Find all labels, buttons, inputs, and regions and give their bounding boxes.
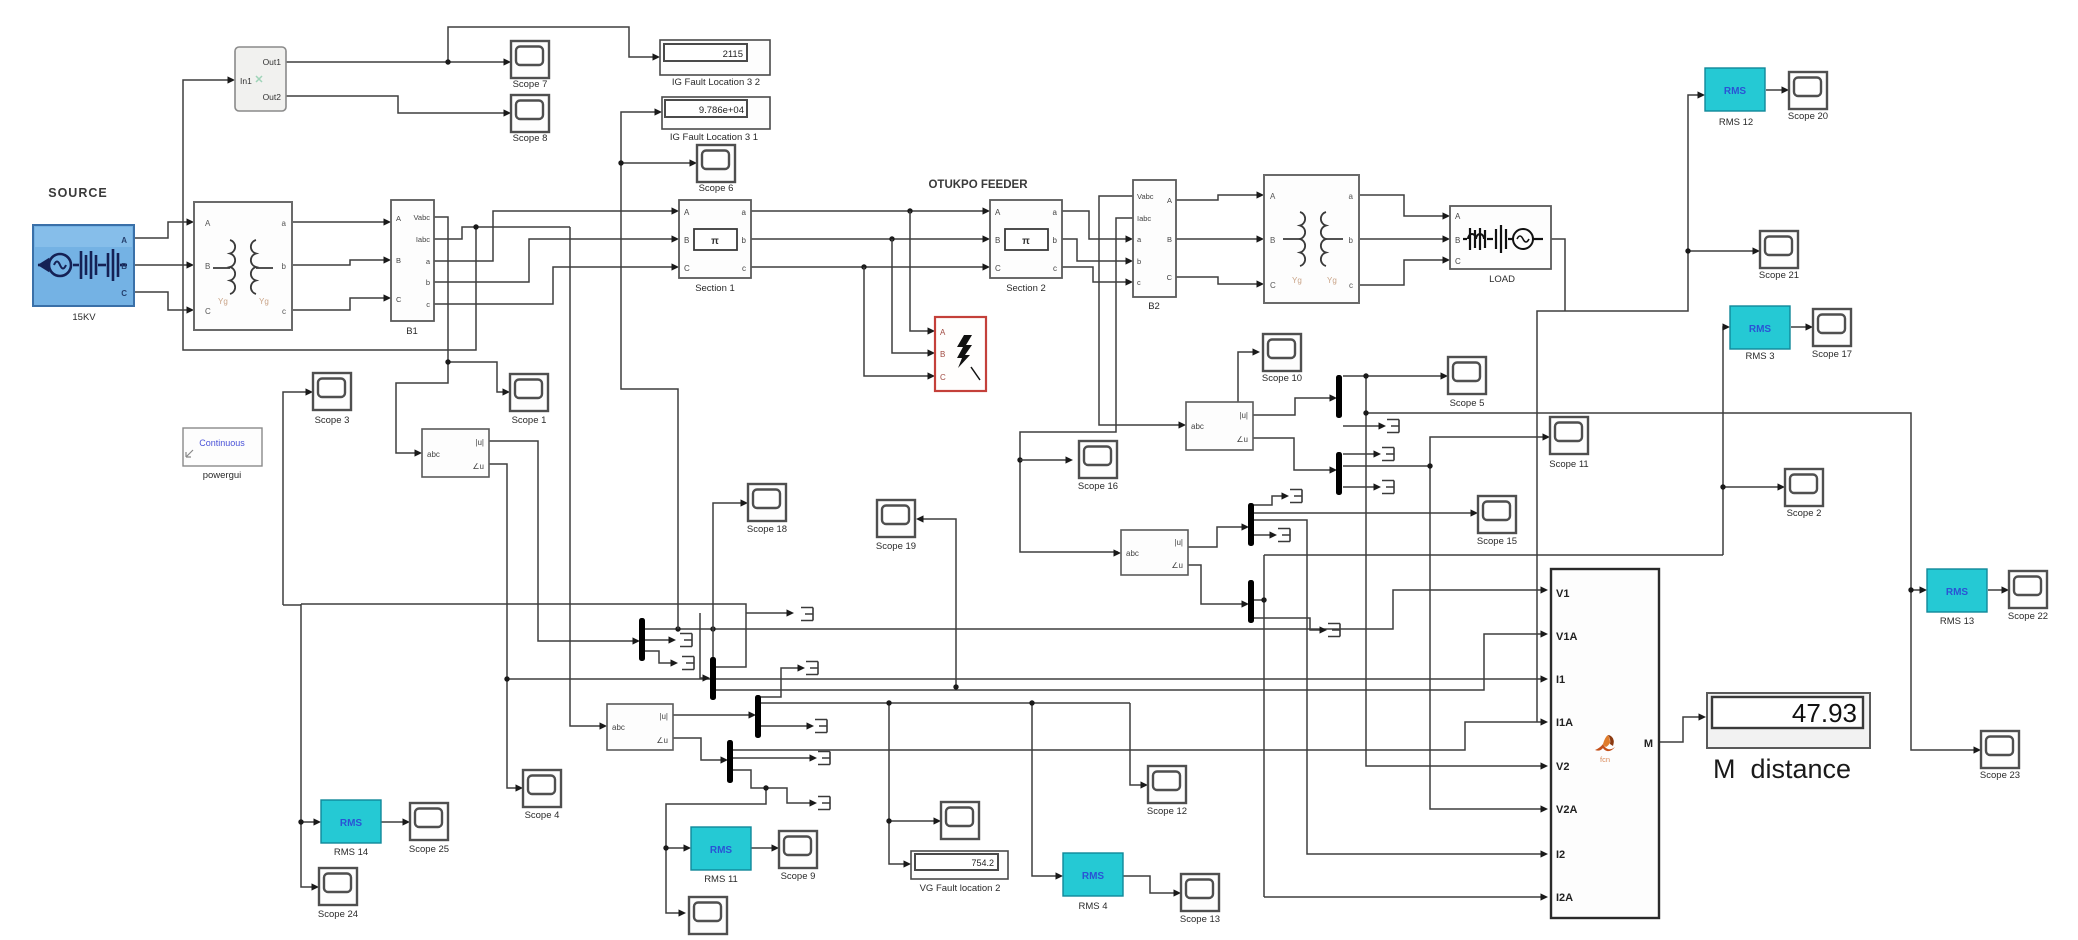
demux bar M3	[755, 695, 761, 738]
scope Scope 25	[409, 803, 449, 855]
wire LOAD output riser to RMS 12 and Scope 21	[1537, 95, 1757, 722]
wire tap to fault A	[910, 211, 932, 331]
abc to mag-angle converter U5	[1121, 530, 1188, 575]
svg-text:9.786e+04: 9.786e+04	[699, 105, 744, 116]
svg-text:I1A: I1A	[1556, 717, 1573, 729]
scope S20u unnamed	[941, 802, 979, 839]
scope Scope 6	[697, 145, 735, 194]
svg-text:b: b	[1053, 236, 1058, 245]
wire trunk bar M1 to fcn V1	[644, 590, 1545, 629]
scope Scope 12	[1147, 766, 1187, 817]
svg-text:B1: B1	[406, 326, 418, 337]
svg-text:b: b	[426, 278, 430, 287]
svg-text:powergui: powergui	[203, 470, 242, 481]
wire B1 a to Section 1 A	[434, 211, 676, 261]
svg-text:Yg: Yg	[259, 297, 269, 306]
wire abc3 mag to bar M3	[673, 714, 753, 716]
wire to Scope 10	[1238, 352, 1257, 402]
RMS block RMS 13	[1927, 569, 1987, 627]
svg-text:c: c	[1137, 278, 1141, 287]
scope Scope 8	[511, 95, 549, 144]
svg-text:B: B	[205, 262, 210, 271]
svg-text:M distance: M distance	[1713, 754, 1851, 784]
wire to Scope 18	[713, 503, 745, 657]
RMS block RMS 4	[1063, 853, 1123, 912]
svg-text:RMS 3: RMS 3	[1745, 351, 1774, 362]
svg-text:Scope 24: Scope 24	[318, 909, 358, 920]
wire bar M3 to terminator T4	[760, 668, 802, 697]
demux bar M1	[639, 618, 645, 661]
wire abc1 angle to Scope 4	[489, 464, 520, 788]
wire T1 c to B1 C	[292, 298, 388, 310]
svg-text:RMS 12: RMS 12	[1719, 117, 1753, 128]
svg-text:RMS 11: RMS 11	[704, 874, 738, 885]
svg-text:∠u: ∠u	[472, 462, 484, 471]
svg-text:V1A: V1A	[1556, 631, 1577, 643]
terminator T7	[818, 797, 830, 810]
svg-text:B: B	[396, 256, 401, 265]
svg-text:C: C	[1270, 281, 1276, 290]
svg-text:|u|: |u|	[659, 712, 668, 721]
terminator T5	[815, 720, 827, 733]
svg-text:Iabc: Iabc	[1137, 214, 1151, 223]
terminator T2	[680, 634, 692, 647]
wire source B to T1	[134, 264, 191, 266]
wire RMS 3 to Scope 17	[1791, 326, 1810, 328]
svg-text:Iabc: Iabc	[416, 235, 430, 244]
svg-text:M: M	[1644, 738, 1653, 750]
scope Scope 2	[1785, 469, 1823, 519]
svg-text:Scope 12: Scope 12	[1147, 806, 1187, 817]
svg-text:Scope 22: Scope 22	[2008, 611, 2048, 622]
wire RMS 11 to Scope 9	[750, 847, 776, 849]
wire bar M4 zigzag to terminator T7 and RMS 11	[666, 770, 814, 913]
scope Scope 11	[1549, 417, 1588, 470]
svg-text:π: π	[1022, 236, 1030, 247]
svg-text:A: A	[940, 328, 946, 337]
svg-text:abc: abc	[427, 450, 440, 459]
svg-text:Scope 25: Scope 25	[409, 844, 449, 855]
terminator T6	[818, 752, 830, 765]
abc to mag-angle converter U4	[1186, 402, 1253, 450]
svg-text:C: C	[940, 373, 946, 382]
wire B1 c to Section 1 C	[434, 267, 676, 304]
wire abc4 angle to bar M6	[1253, 438, 1334, 470]
scope Scope 9	[779, 831, 817, 882]
scope Scope 22	[2008, 571, 2048, 622]
svg-text:A: A	[1455, 212, 1461, 221]
MATLAB function block fcn	[1551, 569, 1659, 918]
svg-text:V1: V1	[1556, 588, 1569, 600]
wire B1 b to Section 1 B	[434, 239, 676, 282]
wire Section2 c to B2 c	[1062, 267, 1130, 282]
svg-text:VG Fault location 2: VG Fault location 2	[920, 883, 1001, 894]
wire bar M7 to Scope 15	[1253, 512, 1475, 514]
svg-text:RMS 14: RMS 14	[334, 847, 368, 858]
wire bar M5 to Scope 5 and fcn V2 and RMS13 trunk	[1343, 376, 1978, 766]
svg-text:B: B	[1270, 236, 1275, 245]
demux bar M2	[710, 657, 716, 700]
wire fcn M to display	[1659, 717, 1703, 742]
svg-text:Scope 7: Scope 7	[513, 79, 548, 90]
wire B2 B to T2 B	[1176, 238, 1261, 240]
scope Scope 4	[523, 770, 561, 821]
wire tap to fault C	[864, 267, 932, 376]
abc to mag-angle converter U3	[607, 704, 673, 750]
svg-text:Vabc: Vabc	[1137, 192, 1154, 201]
wire to Scope 3	[283, 392, 310, 605]
svg-text:Scope 11: Scope 11	[1549, 459, 1588, 470]
svg-text:A: A	[205, 219, 211, 228]
measurement block B1	[391, 200, 434, 337]
wire abc1 angle trunk to fcn I1	[507, 678, 1545, 680]
wire tap to fault B	[892, 239, 932, 353]
transformer T2	[1264, 175, 1359, 303]
svg-text:b: b	[1349, 236, 1354, 245]
svg-text:π: π	[711, 236, 719, 247]
svg-text:In1: In1	[240, 76, 252, 86]
wire bar M3 trunk to V1A riser taps	[760, 703, 1145, 876]
svg-text:Out1: Out1	[263, 57, 282, 67]
demux bar M5	[1336, 375, 1342, 418]
svg-text:B: B	[1455, 236, 1460, 245]
svg-text:V2: V2	[1556, 761, 1569, 773]
svg-text:IG Fault Location 3 1: IG Fault Location 3 1	[670, 132, 758, 143]
svg-text:b: b	[742, 236, 747, 245]
svg-text:I2A: I2A	[1556, 892, 1573, 904]
scope Scope 17	[1812, 309, 1852, 360]
scope Scope 1	[510, 374, 548, 426]
demux bar M4	[727, 740, 733, 783]
svg-text:A: A	[684, 208, 690, 217]
svg-text:Scope 3: Scope 3	[315, 415, 350, 426]
svg-text:|u|: |u|	[475, 438, 484, 447]
wire trunk to fcn I1A	[732, 722, 1545, 750]
scope Scope 20	[1788, 72, 1828, 122]
wire RMS 14 to Scope 25	[380, 821, 407, 823]
svg-text:Scope 6: Scope 6	[699, 183, 734, 194]
svg-text:RMS 4: RMS 4	[1078, 901, 1107, 912]
svg-text:2115: 2115	[723, 49, 743, 60]
svg-text:Scope 18: Scope 18	[747, 524, 787, 535]
svg-text:A: A	[1167, 196, 1172, 205]
wire display net	[621, 112, 694, 629]
demux bar M6	[1336, 452, 1342, 495]
wire bar M7 to fcn I2	[1253, 520, 1545, 854]
RMS block RMS 3	[1730, 306, 1790, 362]
svg-text:Yg: Yg	[1327, 276, 1337, 285]
svg-text:abc: abc	[612, 723, 625, 732]
svg-text:LOAD: LOAD	[1489, 274, 1515, 285]
scope Scope 10	[1262, 334, 1302, 384]
svg-text:A: A	[396, 214, 401, 223]
scope Scope 7	[511, 41, 549, 90]
three-phase fault block	[935, 317, 986, 391]
wire source C to T1	[134, 292, 191, 310]
terminator T11	[1290, 490, 1302, 503]
svg-text:C: C	[1455, 257, 1461, 266]
wire bar M6 to Scope 11 and fcn V2A	[1343, 437, 1547, 809]
scope Scope 21	[1759, 231, 1799, 281]
scope Scope 16	[1078, 441, 1118, 492]
svg-text:|u|: |u|	[1174, 538, 1183, 547]
svg-text:15KV: 15KV	[72, 312, 96, 323]
svg-text:b: b	[282, 262, 287, 271]
wire bar M8 to terminator T13	[1253, 618, 1324, 630]
terminator T4	[806, 662, 818, 675]
svg-text:∠u: ∠u	[1236, 435, 1248, 444]
svg-text:Scope 5: Scope 5	[1450, 398, 1485, 409]
terminator T1	[801, 608, 813, 621]
scope Scope 14	[688, 897, 728, 940]
wire B2 C to T2 C	[1176, 277, 1261, 284]
svg-text:a: a	[1349, 192, 1354, 201]
svg-text:B: B	[121, 262, 127, 271]
wire Section1 b to Section2 B	[751, 238, 987, 240]
wire T2 c to LOAD C	[1359, 260, 1447, 285]
wire Out2 to Scope 8	[286, 96, 508, 113]
wire Section1 a to Section2 A	[751, 210, 987, 212]
wire trunk to RMS 14 and Scope 24	[301, 604, 791, 887]
svg-text:Scope 17: Scope 17	[1812, 349, 1852, 360]
wire B1 Iabc to abc3 and In1	[183, 80, 604, 726]
svg-text:Scope 20: Scope 20	[1788, 111, 1828, 122]
svg-text:Section 1: Section 1	[695, 283, 735, 294]
wire bar M4 to terminator T6	[732, 757, 814, 759]
wire RMS 4 to Scope 13	[1122, 876, 1178, 893]
wire bar M7 to terminator T12	[1253, 534, 1274, 536]
svg-text:∠u: ∠u	[1171, 561, 1183, 570]
wire abc4 mag to bar M5	[1253, 398, 1334, 415]
svg-text:B: B	[1167, 235, 1172, 244]
wire RMS 12 to Scope 20	[1766, 89, 1786, 91]
svg-text:Out2: Out2	[263, 92, 282, 102]
scope Scope 15	[1477, 496, 1517, 547]
wire bar M1 to terminator T2	[644, 639, 673, 641]
terminator T9	[1382, 448, 1394, 461]
svg-text:Scope 8: Scope 8	[513, 133, 548, 144]
display VG Fault location 2	[911, 851, 1008, 894]
wire abc5 angle to bar M8	[1188, 565, 1246, 604]
svg-text:c: c	[742, 264, 746, 273]
measurement block B2	[1133, 180, 1176, 312]
svg-text:Yg: Yg	[1292, 276, 1302, 285]
svg-text:|u|: |u|	[1239, 411, 1248, 420]
svg-text:I1: I1	[1556, 674, 1565, 686]
source block 15KV	[33, 225, 134, 323]
svg-text:C: C	[396, 295, 402, 304]
svg-text:Vabc: Vabc	[413, 213, 430, 222]
svg-text:A: A	[995, 208, 1001, 217]
svg-text:Yg: Yg	[218, 297, 228, 306]
terminator T3	[682, 657, 694, 670]
wire Section2 b to B2 b	[1062, 239, 1130, 261]
svg-text:754.2: 754.2	[971, 858, 994, 868]
display IG Fault Location 3 1	[662, 97, 770, 143]
svg-text:Scope 10: Scope 10	[1262, 373, 1302, 384]
wire B2 A to T2 A	[1176, 195, 1261, 200]
wire T2 b to LOAD B	[1359, 238, 1447, 240]
wire B1 Vabc to abc1 and Scope 1	[396, 217, 507, 453]
scope Scope 13	[1180, 874, 1220, 925]
display IG Fault Location 3 2	[660, 40, 770, 88]
svg-text:Scope 13: Scope 13	[1180, 914, 1220, 925]
svg-text:Scope 2: Scope 2	[1787, 508, 1822, 519]
wire B2 Vabc to abc4	[1099, 196, 1183, 425]
abc to mag-angle converter U2	[422, 429, 489, 477]
wire Out1 to Scope 7 and display	[286, 27, 657, 62]
svg-text:a: a	[1053, 208, 1058, 217]
demux bar M8	[1248, 580, 1254, 623]
pi section block Section 1	[679, 200, 751, 294]
scope Scope 3	[313, 373, 351, 426]
powergui block	[183, 428, 262, 481]
svg-text:C: C	[684, 264, 690, 273]
wire bar M2 trunk to fcn V1A	[715, 634, 1545, 690]
wire abc5 mag to bar M7	[1188, 527, 1246, 547]
wire T1 b to B1 B	[292, 260, 388, 265]
svg-text:c: c	[426, 300, 430, 309]
svg-text:I2: I2	[1556, 849, 1565, 861]
svg-text:C: C	[1167, 273, 1173, 282]
svg-text:Continuous: Continuous	[199, 438, 245, 448]
scope Scope 5	[1448, 357, 1486, 409]
wire bar M7 to terminator T11	[1253, 496, 1286, 505]
RMS block RMS 12	[1705, 68, 1765, 128]
RMS block RMS 11	[691, 827, 751, 885]
svg-text:A: A	[1270, 192, 1276, 201]
terminator T10	[1382, 481, 1394, 494]
svg-text:∠u: ∠u	[656, 736, 668, 745]
demux bar M7	[1248, 503, 1254, 546]
svg-text:abc: abc	[1191, 422, 1204, 431]
svg-text:Scope 21: Scope 21	[1759, 270, 1799, 281]
RMS block RMS 14	[321, 800, 381, 858]
wire to Scope 16	[1020, 459, 1070, 461]
svg-text:Scope 16: Scope 16	[1078, 481, 1118, 492]
wire Section1 c to Section2 C	[751, 266, 987, 268]
svg-text:B: B	[684, 236, 689, 245]
scope Scope 18	[747, 484, 787, 535]
wire bar M1 to terminator T3	[644, 651, 675, 663]
wire source A to T1	[134, 222, 191, 238]
svg-text:Scope 9: Scope 9	[781, 871, 816, 882]
wire bar M8 to fcn I2A and Scope2 RMS3	[1253, 327, 1782, 897]
svg-text:B2: B2	[1148, 301, 1160, 312]
wire T1 a to B1 A	[292, 221, 388, 223]
pi section block Section 2	[990, 200, 1062, 294]
transformer T1	[194, 202, 292, 330]
svg-text:a: a	[282, 219, 287, 228]
scope Scope 23	[1980, 731, 2020, 781]
svg-text:V2A: V2A	[1556, 804, 1577, 816]
svg-text:fcn: fcn	[1600, 755, 1610, 764]
svg-text:a: a	[742, 208, 747, 217]
svg-text:C: C	[995, 264, 1001, 273]
wire abc3 angle to bar M4	[673, 738, 725, 760]
load block LOAD	[1450, 206, 1551, 285]
wire bar M3 to terminator T5	[760, 725, 811, 727]
wire T2 a to LOAD A	[1359, 195, 1447, 216]
terminator T13	[1328, 624, 1340, 637]
svg-text:B: B	[995, 236, 1000, 245]
svg-text:Scope 1: Scope 1	[512, 415, 547, 426]
svg-text:OTUKPO FEEDER: OTUKPO FEEDER	[928, 179, 1028, 191]
svg-text:RMS 13: RMS 13	[1940, 616, 1974, 627]
svg-text:Section 2: Section 2	[1006, 283, 1046, 294]
svg-text:A: A	[121, 236, 127, 245]
wire bar M5 to terminator T8	[1343, 425, 1383, 427]
svg-text:c: c	[282, 307, 286, 316]
svg-text:B: B	[940, 350, 945, 359]
wire Section2 a to B2 a	[1062, 211, 1130, 239]
subsystem U1 (In1/Out1/Out2 fault locator)	[235, 47, 286, 111]
scope Scope 24	[318, 868, 358, 920]
display M distance 47.93	[1707, 693, 1870, 784]
svg-text:b: b	[1137, 257, 1141, 266]
wire to Scope 19	[919, 519, 956, 687]
svg-text:Scope 15: Scope 15	[1477, 536, 1517, 547]
wire abc1 mag to bar M1	[489, 441, 637, 641]
svg-text:IG Fault Location 3 2: IG Fault Location 3 2	[672, 77, 760, 88]
wire B2 Iabc to abc5	[1020, 218, 1133, 552]
terminator T12	[1278, 529, 1290, 542]
svg-text:Scope 19: Scope 19	[876, 541, 916, 552]
svg-text:c: c	[1349, 281, 1353, 290]
svg-text:C: C	[205, 307, 211, 316]
svg-text:abc: abc	[1126, 549, 1139, 558]
svg-text:SOURCE: SOURCE	[48, 186, 107, 200]
scope Scope 19	[876, 500, 916, 552]
terminator T8	[1387, 420, 1399, 433]
svg-text:C: C	[121, 289, 127, 298]
wire bar M6 to terminator T9	[1343, 453, 1378, 455]
wire RMS 13 to Scope 22	[1988, 589, 2006, 591]
svg-text:47.93: 47.93	[1792, 698, 1857, 728]
svg-text:Scope 4: Scope 4	[525, 810, 560, 821]
wire bar M6 to terminator T10	[1343, 486, 1378, 488]
svg-text:Scope 23: Scope 23	[1980, 770, 2020, 781]
svg-text:c: c	[1053, 264, 1057, 273]
